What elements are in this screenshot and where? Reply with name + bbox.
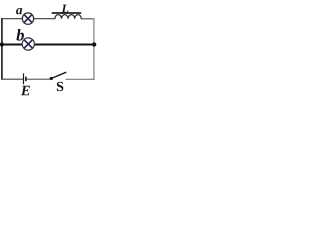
wire right rail (93, 18, 95, 80)
battery E short plate (25, 77, 27, 82)
battery E long plate (23, 73, 25, 84)
wire left rail (1, 18, 3, 80)
label S (57, 82, 63, 91)
node left junction (0, 42, 4, 46)
label a (16, 8, 22, 14)
switch S pivot dot (50, 77, 53, 80)
inductor L coil (4 humps) (55, 15, 81, 19)
inductor L core bar (52, 12, 81, 14)
label E (21, 86, 30, 95)
lamp b (22, 38, 34, 50)
wire bottom right segment (switch to right rail) (66, 78, 95, 80)
wire bottom middle segment (battery to switch) (27, 78, 51, 80)
lamp a (22, 13, 33, 24)
switch S lever (52, 72, 67, 78)
wire top left segment (left rail to inductor, through lamp a) (2, 18, 56, 20)
wire top right segment (inductor to right rail) (81, 18, 95, 20)
wire middle branch (lamp b branch) (2, 44, 94, 46)
label b (16, 29, 24, 41)
node right junction (92, 42, 96, 46)
label L (62, 5, 69, 13)
wire bottom left segment (to battery) (1, 78, 23, 80)
